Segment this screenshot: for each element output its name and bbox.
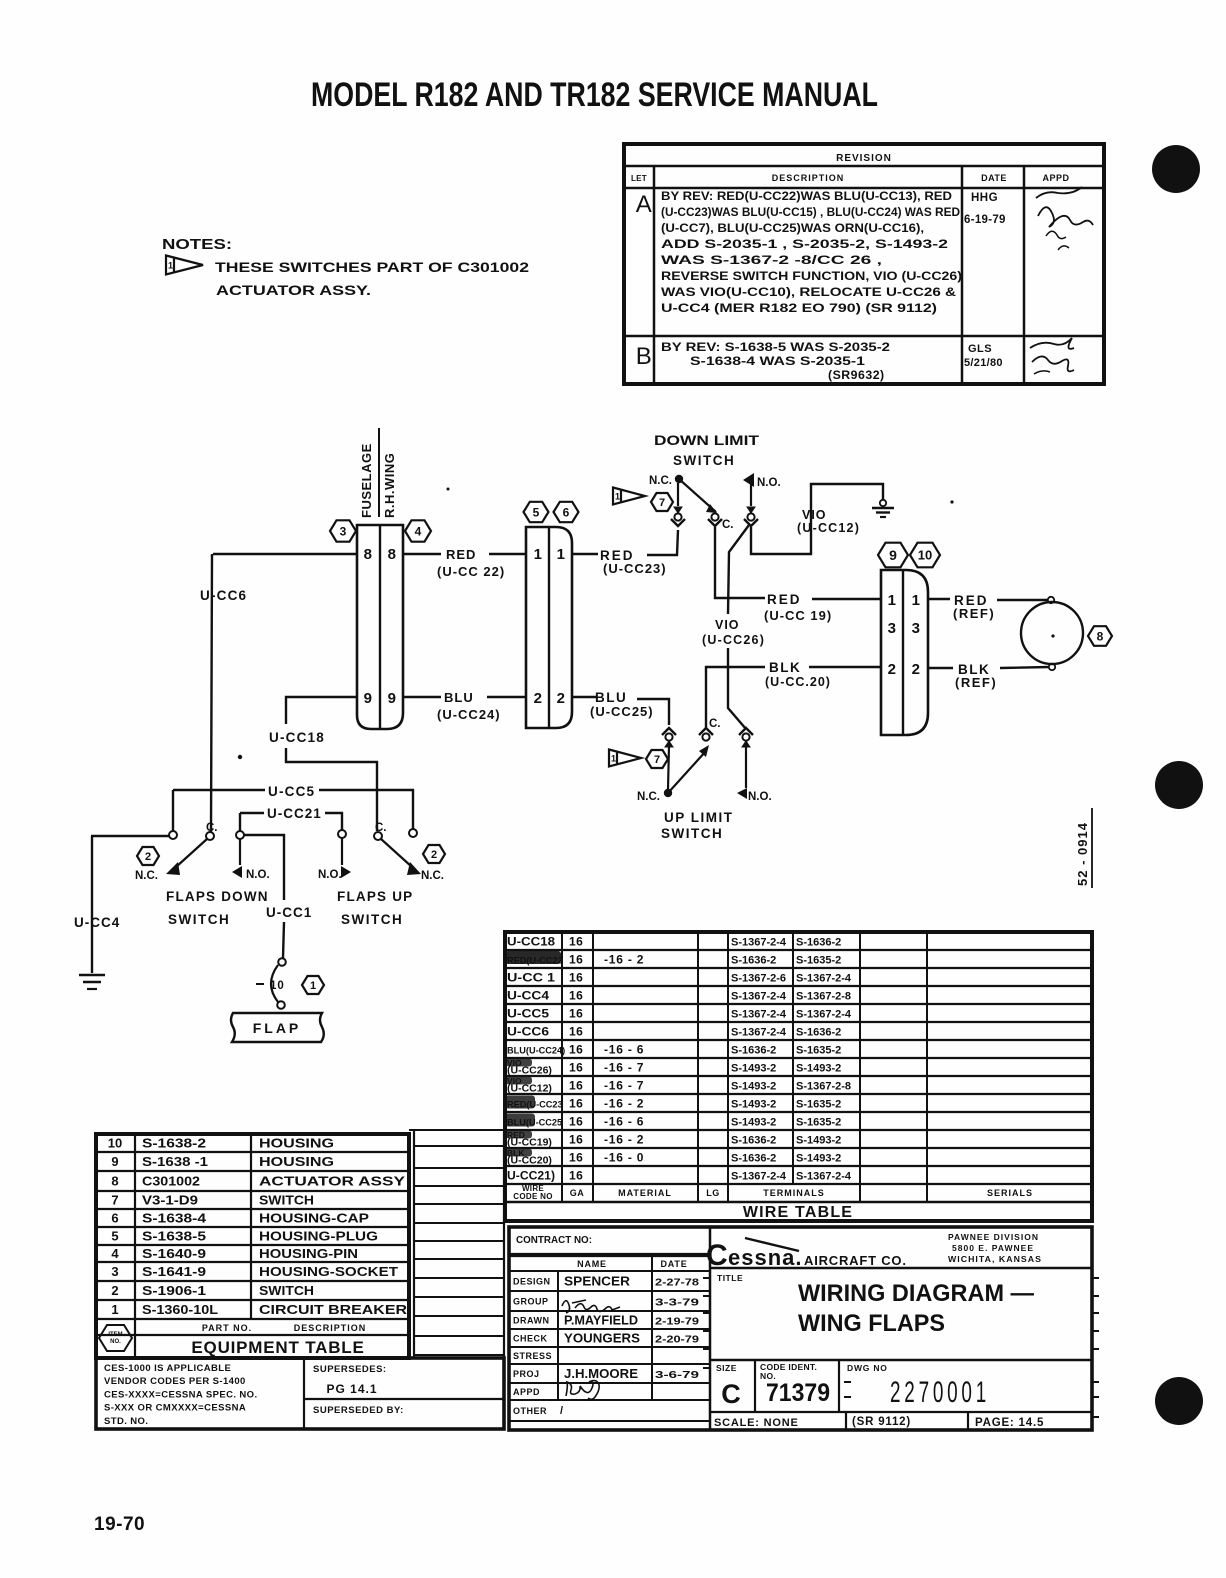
svg-text:SUPERSEDES:: SUPERSEDES: — [313, 1364, 387, 1375]
svg-text:AIRCRAFT CO.: AIRCRAFT CO. — [804, 1253, 907, 1268]
svg-text:16: 16 — [569, 1043, 583, 1057]
svg-text:3-3-79: 3-3-79 — [655, 1297, 699, 1309]
svg-text:SWITCH: SWITCH — [673, 453, 735, 468]
svg-text:9: 9 — [388, 690, 397, 707]
svg-text:SWITCH: SWITCH — [661, 826, 723, 841]
svg-text:U-CC21: U-CC21 — [267, 806, 322, 821]
svg-text:9: 9 — [889, 547, 897, 563]
svg-text:1: 1 — [557, 546, 566, 563]
svg-text:ADD S-2035-1 , S-2035-2, S-149: ADD S-2035-1 , S-2035-2, S-1493-2 — [661, 237, 948, 251]
svg-text:C.: C. — [206, 822, 218, 834]
svg-text:S-1367-2-6: S-1367-2-6 — [731, 973, 786, 985]
svg-text:C.: C. — [375, 822, 387, 834]
svg-text:WAS S-1367-2 -8/CC 26 ,: WAS S-1367-2 -8/CC 26 , — [661, 253, 882, 267]
svg-text:DWG NO: DWG NO — [847, 1363, 888, 1373]
svg-text:THESE SWITCHES PART OF C301002: THESE SWITCHES PART OF C301002 — [215, 259, 529, 275]
svg-text:U-CC21): U-CC21) — [507, 1169, 555, 1183]
svg-text:1: 1 — [534, 546, 543, 563]
svg-text:S-1635-2: S-1635-2 — [796, 1099, 841, 1111]
svg-text:DESIGN: DESIGN — [513, 1277, 551, 1287]
svg-text:-16 - 0: -16 - 0 — [604, 1151, 644, 1165]
svg-text:S-1906-1: S-1906-1 — [142, 1283, 206, 1298]
svg-text:(U-CC23)WAS BLU(U-CC15) , BLU(: (U-CC23)WAS BLU(U-CC15) , BLU(U-CC24) WA… — [661, 205, 960, 219]
svg-text:6-19-79: 6-19-79 — [964, 214, 1006, 226]
svg-text:S-1638-4 WAS S-2035-1: S-1638-4 WAS S-2035-1 — [690, 354, 865, 368]
svg-text:-16 - 2: -16 - 2 — [604, 1097, 644, 1111]
svg-text:2270001: 2270001 — [890, 1376, 990, 1409]
svg-text:S-1367-2-4: S-1367-2-4 — [796, 1009, 852, 1021]
svg-text:PAGE: 14.5: PAGE: 14.5 — [975, 1417, 1044, 1429]
svg-text:LET: LET — [631, 174, 647, 183]
svg-text:CHECK: CHECK — [513, 1334, 548, 1344]
svg-text:8: 8 — [1097, 629, 1104, 643]
svg-text:SIZE: SIZE — [716, 1363, 737, 1373]
svg-text:GROUP: GROUP — [513, 1297, 549, 1307]
svg-text:3: 3 — [111, 1264, 118, 1279]
svg-text:N.C.: N.C. — [135, 870, 158, 882]
svg-text:APPD: APPD — [513, 1387, 540, 1397]
svg-text:2-19-79: 2-19-79 — [655, 1316, 699, 1328]
svg-text:HHG: HHG — [971, 192, 998, 204]
svg-text:SWITCH: SWITCH — [168, 912, 230, 927]
svg-text:NAME: NAME — [577, 1259, 607, 1269]
svg-text:N.C.: N.C. — [637, 791, 660, 803]
svg-text:APPD: APPD — [1042, 173, 1069, 183]
svg-text:UP LIMIT: UP LIMIT — [664, 810, 734, 825]
svg-text:CODE NO: CODE NO — [513, 1192, 552, 1201]
svg-text:2: 2 — [557, 690, 566, 707]
svg-text:WIRE TABLE: WIRE TABLE — [743, 1204, 853, 1221]
svg-text:GA: GA — [570, 1188, 585, 1198]
svg-text:HOUSING-SOCKET: HOUSING-SOCKET — [259, 1264, 398, 1279]
svg-text:U-CC18: U-CC18 — [507, 935, 555, 949]
svg-text:S-1636-2: S-1636-2 — [796, 1027, 841, 1039]
svg-text:SCALE: NONE: SCALE: NONE — [714, 1417, 799, 1429]
svg-text:CIRCUIT BREAKER: CIRCUIT BREAKER — [259, 1302, 408, 1317]
svg-text:BY REV: S-1638-5 WAS S-2035-2: BY REV: S-1638-5 WAS S-2035-2 — [661, 340, 890, 354]
svg-text:DATE: DATE — [660, 1259, 687, 1269]
svg-text:SUPERSEDED BY:: SUPERSEDED BY: — [313, 1405, 404, 1416]
svg-text:S-1493-2: S-1493-2 — [796, 1063, 841, 1075]
svg-text:EQUIPMENT TABLE: EQUIPMENT TABLE — [191, 1338, 364, 1357]
svg-text:U-CC4: U-CC4 — [74, 915, 120, 930]
svg-text:FUSELAGE: FUSELAGE — [359, 443, 374, 518]
svg-text:GLS: GLS — [968, 343, 992, 355]
svg-text:RED: RED — [446, 547, 476, 562]
svg-text:DATE: DATE — [981, 173, 1007, 183]
svg-text:52 - 0914: 52 - 0914 — [1075, 822, 1090, 886]
svg-text:N.O.: N.O. — [757, 477, 781, 489]
svg-text:7: 7 — [659, 497, 665, 509]
svg-text:7: 7 — [654, 754, 660, 766]
svg-text:NO.: NO. — [110, 1339, 121, 1345]
svg-text:S-1367-2-4: S-1367-2-4 — [731, 991, 787, 1003]
svg-text:2-27-78: 2-27-78 — [655, 1277, 699, 1289]
svg-text:16: 16 — [569, 1025, 583, 1039]
svg-text:MODEL R182 AND TR182 SERVICE M: MODEL R182 AND TR182 SERVICE MANUAL — [311, 76, 878, 114]
svg-text:16: 16 — [569, 1133, 583, 1147]
svg-text:C: C — [721, 1379, 741, 1409]
svg-text:STD. NO.: STD. NO. — [104, 1416, 148, 1427]
svg-text:ITEM: ITEM — [108, 1332, 122, 1338]
svg-text:DESCRIPTION: DESCRIPTION — [772, 173, 845, 183]
svg-text:5: 5 — [111, 1229, 118, 1244]
svg-text:5/21/80: 5/21/80 — [964, 357, 1003, 369]
svg-text:A: A — [636, 191, 653, 218]
svg-text:S-1367-2-8: S-1367-2-8 — [796, 1081, 851, 1093]
svg-text:16: 16 — [569, 1007, 583, 1021]
svg-text:S-1640-9: S-1640-9 — [142, 1246, 206, 1261]
svg-text:10: 10 — [270, 980, 285, 992]
svg-text:1: 1 — [615, 492, 620, 502]
svg-text:TITLE: TITLE — [717, 1273, 743, 1283]
svg-text:WIRING DIAGRAM —: WIRING DIAGRAM — — [798, 1280, 1034, 1307]
svg-text:N.O.: N.O. — [748, 791, 772, 803]
svg-text:(SR9632): (SR9632) — [828, 368, 885, 382]
svg-text:U-CC 1: U-CC 1 — [507, 971, 555, 985]
svg-text:16: 16 — [569, 1151, 583, 1165]
svg-text:19-70: 19-70 — [94, 1514, 145, 1535]
svg-text:S-1367-2-8: S-1367-2-8 — [796, 991, 851, 1003]
svg-text:(SR 9112): (SR 9112) — [852, 1416, 911, 1428]
svg-text:S-1638 -1: S-1638 -1 — [142, 1154, 208, 1169]
svg-text:S-1367-2-4: S-1367-2-4 — [796, 973, 852, 985]
svg-text:V3-1-D9: V3-1-D9 — [142, 1193, 198, 1208]
svg-text:BLK: BLK — [769, 660, 801, 675]
svg-text:SWITCH: SWITCH — [259, 1193, 314, 1208]
svg-text:71379: 71379 — [766, 1379, 830, 1407]
svg-text:-16 - 2: -16 - 2 — [604, 1133, 644, 1147]
svg-text:U-CC5: U-CC5 — [507, 1007, 549, 1021]
svg-text:8: 8 — [364, 546, 373, 563]
svg-text:10: 10 — [918, 548, 932, 563]
svg-text:2-20-79: 2-20-79 — [655, 1334, 699, 1346]
svg-text:9: 9 — [364, 690, 373, 707]
svg-text:8: 8 — [111, 1174, 118, 1189]
svg-text:R.H.WING: R.H.WING — [382, 453, 397, 518]
svg-text:S-1638-5: S-1638-5 — [142, 1229, 206, 1244]
svg-text:BLU(U-CC24): BLU(U-CC24) — [507, 1046, 565, 1056]
svg-text:2: 2 — [888, 661, 897, 678]
svg-text:1: 1 — [310, 980, 316, 992]
svg-text:S-1636-2: S-1636-2 — [731, 1153, 776, 1165]
svg-text:16: 16 — [569, 989, 583, 1003]
svg-text:CES-1000 IS APPLICABLE: CES-1000 IS APPLICABLE — [104, 1363, 231, 1374]
svg-text:ACTUATOR ASSY.: ACTUATOR ASSY. — [216, 282, 371, 298]
svg-text:(U-CC23): (U-CC23) — [603, 561, 667, 576]
svg-text:2: 2 — [912, 661, 921, 678]
svg-text:TERMINALS: TERMINALS — [763, 1188, 825, 1198]
svg-text:FLAP: FLAP — [253, 1020, 302, 1036]
svg-text:2: 2 — [431, 849, 437, 861]
svg-text:ACTUATOR ASSY: ACTUATOR ASSY — [259, 1174, 405, 1189]
svg-text:U-CC18: U-CC18 — [269, 730, 325, 745]
svg-text:3-6-79: 3-6-79 — [655, 1369, 699, 1381]
svg-text:FLAPS DOWN: FLAPS DOWN — [166, 889, 269, 904]
svg-text:-16 - 7: -16 - 7 — [604, 1079, 644, 1093]
svg-text:S-1636-2: S-1636-2 — [731, 1135, 776, 1147]
svg-text:7: 7 — [111, 1193, 118, 1208]
svg-text:1: 1 — [912, 592, 921, 609]
svg-text:3: 3 — [340, 524, 347, 538]
svg-text:YOUNGERS: YOUNGERS — [564, 1332, 640, 1346]
svg-text:S-1635-2: S-1635-2 — [796, 1045, 841, 1057]
svg-text:U-CC1: U-CC1 — [266, 905, 312, 920]
svg-text:(U-CC 22): (U-CC 22) — [437, 564, 505, 579]
svg-text:16: 16 — [569, 1115, 583, 1129]
svg-text:1: 1 — [168, 261, 173, 271]
svg-text:2: 2 — [111, 1283, 118, 1298]
svg-text:S-1638-2: S-1638-2 — [142, 1136, 206, 1151]
svg-text:-16 - 2: -16 - 2 — [604, 953, 644, 967]
svg-text:2: 2 — [145, 851, 151, 863]
svg-text:LG: LG — [706, 1188, 720, 1198]
svg-text:SPENCER: SPENCER — [564, 1275, 630, 1289]
svg-text:S-1360-10L: S-1360-10L — [142, 1302, 218, 1317]
svg-text:S-1367-2-4: S-1367-2-4 — [731, 1009, 787, 1021]
svg-text:S-1493-2: S-1493-2 — [796, 1153, 841, 1165]
svg-text:S-1493-2: S-1493-2 — [796, 1135, 841, 1147]
svg-text:16: 16 — [569, 953, 583, 967]
svg-text:16: 16 — [569, 1097, 583, 1111]
svg-text:S-1493-2: S-1493-2 — [731, 1081, 776, 1093]
svg-text:CONTRACT NO:: CONTRACT NO: — [516, 1234, 592, 1246]
svg-text:VENDOR CODES PER S-1400: VENDOR CODES PER S-1400 — [104, 1376, 246, 1387]
svg-text:U-CC4: U-CC4 — [507, 989, 549, 1003]
svg-text:BLU: BLU — [444, 690, 474, 705]
svg-text:DRAWN: DRAWN — [513, 1316, 550, 1326]
svg-text:WAS VIO(U-CC10), RELOCATE U-CC: WAS VIO(U-CC10), RELOCATE U-CC26 & — [661, 285, 956, 299]
svg-text:PAWNEE DIVISION: PAWNEE DIVISION — [948, 1232, 1039, 1242]
svg-text:HOUSING-PLUG: HOUSING-PLUG — [259, 1229, 378, 1244]
svg-text:(REF): (REF) — [955, 675, 997, 690]
svg-text:NOTES:: NOTES: — [162, 237, 232, 253]
svg-text:6: 6 — [111, 1211, 118, 1226]
svg-text:N.C.: N.C. — [421, 870, 444, 882]
svg-text:(U-CC26): (U-CC26) — [702, 633, 765, 647]
svg-text:6: 6 — [563, 505, 570, 519]
svg-text:OTHER: OTHER — [513, 1406, 547, 1416]
svg-text:16: 16 — [569, 1169, 583, 1183]
svg-text:S-1493-2: S-1493-2 — [731, 1099, 776, 1111]
svg-text:N.O.: N.O. — [246, 869, 270, 881]
svg-text:RED: RED — [767, 592, 802, 607]
svg-text:N.C.: N.C. — [649, 475, 672, 487]
svg-text:16: 16 — [569, 1061, 583, 1075]
svg-text:1: 1 — [611, 754, 616, 764]
svg-text:(U-CC25): (U-CC25) — [590, 704, 654, 719]
svg-text:PROJ: PROJ — [513, 1369, 540, 1379]
svg-text:16: 16 — [569, 1079, 583, 1093]
svg-text:S-1638-4: S-1638-4 — [142, 1211, 207, 1226]
svg-text:C.: C. — [709, 718, 721, 730]
svg-text:5: 5 — [533, 505, 540, 519]
svg-text:/: / — [560, 1405, 563, 1417]
svg-text:U-CC6: U-CC6 — [507, 1025, 549, 1039]
svg-text:HOUSING-PIN: HOUSING-PIN — [259, 1246, 358, 1261]
svg-text:FLAPS UP: FLAPS UP — [337, 889, 413, 904]
svg-text:J.H.MOORE: J.H.MOORE — [564, 1367, 638, 1381]
svg-text:SERIALS: SERIALS — [987, 1188, 1033, 1198]
svg-text:(U-CC 19): (U-CC 19) — [764, 608, 832, 623]
svg-text:3: 3 — [912, 620, 921, 637]
svg-text:BLU: BLU — [595, 690, 627, 705]
svg-text:WICHITA, KANSAS: WICHITA, KANSAS — [948, 1254, 1042, 1264]
svg-text:-16 - 7: -16 - 7 — [604, 1061, 644, 1075]
svg-text:S-1493-2: S-1493-2 — [731, 1063, 776, 1075]
svg-text:S-1636-2: S-1636-2 — [796, 937, 841, 949]
svg-text:VIO: VIO — [715, 618, 740, 632]
svg-text:9: 9 — [111, 1154, 118, 1169]
svg-text:VIO: VIO — [802, 508, 827, 522]
svg-text:S-1635-2: S-1635-2 — [796, 955, 841, 967]
svg-text:8: 8 — [388, 546, 397, 563]
svg-text:P.MAYFIELD: P.MAYFIELD — [564, 1314, 638, 1328]
svg-text:S-1636-2: S-1636-2 — [731, 1045, 776, 1057]
svg-text:REVERSE SWITCH FUNCTION, VIO (: REVERSE SWITCH FUNCTION, VIO (U-CC26) — [661, 269, 962, 283]
svg-text:1: 1 — [888, 592, 897, 609]
svg-text:HOUSING: HOUSING — [259, 1136, 334, 1151]
svg-text:U-CC6: U-CC6 — [200, 588, 247, 603]
svg-text:(U-CC12): (U-CC12) — [797, 521, 860, 535]
svg-text:STRESS: STRESS — [513, 1351, 552, 1361]
svg-text:S-1367-2-4: S-1367-2-4 — [731, 1171, 787, 1183]
svg-text:WING FLAPS: WING FLAPS — [798, 1310, 945, 1337]
svg-text:1: 1 — [111, 1302, 118, 1317]
svg-text:2: 2 — [534, 690, 543, 707]
svg-text:(REF): (REF) — [953, 606, 995, 621]
svg-text:5800 E. PAWNEE: 5800 E. PAWNEE — [952, 1243, 1034, 1253]
svg-text:SWITCH: SWITCH — [259, 1283, 314, 1298]
svg-text:PART NO.: PART NO. — [202, 1323, 252, 1333]
svg-text:S-1367-2-4: S-1367-2-4 — [731, 1027, 787, 1039]
svg-text:MATERIAL: MATERIAL — [618, 1188, 672, 1198]
svg-text:3: 3 — [888, 620, 897, 637]
svg-text:U-CC4 (MER R182 EO 790) (SR: U-CC4 (MER R182 EO 790) (SR 9112) — [661, 301, 937, 315]
svg-text:16: 16 — [569, 935, 583, 949]
svg-text:PG 14.1: PG 14.1 — [326, 1382, 377, 1396]
svg-text:REVISION: REVISION — [836, 153, 892, 164]
svg-text:DOWN LIMIT: DOWN LIMIT — [654, 433, 760, 448]
svg-text:(U-CC24): (U-CC24) — [437, 707, 501, 722]
svg-text:10: 10 — [108, 1136, 122, 1151]
svg-text:4: 4 — [415, 524, 422, 538]
svg-text:SWITCH: SWITCH — [341, 912, 403, 927]
svg-text:S-1367-2-4: S-1367-2-4 — [796, 1171, 852, 1183]
svg-text:HOUSING: HOUSING — [259, 1154, 334, 1169]
svg-text:BY REV: RED(U-CC22)WAS BLU(U-C: BY REV: RED(U-CC22)WAS BLU(U-CC13), RED — [661, 189, 952, 203]
svg-text:-16 - 6: -16 - 6 — [604, 1115, 644, 1129]
svg-text:C.: C. — [722, 519, 734, 531]
svg-text:S-1493-2: S-1493-2 — [731, 1117, 776, 1129]
svg-text:C301002: C301002 — [142, 1174, 200, 1189]
svg-text:-16 - 6: -16 - 6 — [604, 1043, 644, 1057]
svg-text:S-XXX OR CMXXXX=CESSNA: S-XXX OR CMXXXX=CESSNA — [104, 1403, 246, 1414]
svg-text:(U-CC7), BLU(U-CC25)WAS ORN(U-: (U-CC7), BLU(U-CC25)WAS ORN(U-CC16), — [661, 221, 924, 235]
svg-text:S-1367-2-4: S-1367-2-4 — [731, 937, 787, 949]
svg-text:U-CC5: U-CC5 — [268, 784, 315, 799]
svg-text:DESCRIPTION: DESCRIPTION — [294, 1323, 367, 1333]
svg-text:S-1641-9: S-1641-9 — [142, 1264, 206, 1279]
svg-text:N.O.: N.O. — [318, 869, 342, 881]
svg-text:B: B — [636, 343, 653, 370]
svg-text:4: 4 — [111, 1246, 119, 1261]
svg-text:CES-XXXX=CESSNA SPEC. NO.: CES-XXXX=CESSNA SPEC. NO. — [104, 1389, 258, 1400]
svg-text:(U-CC.20): (U-CC.20) — [765, 675, 831, 689]
svg-text:S-1635-2: S-1635-2 — [796, 1117, 841, 1129]
svg-text:HOUSING-CAP: HOUSING-CAP — [259, 1211, 369, 1226]
svg-text:16: 16 — [569, 971, 583, 985]
svg-text:S-1636-2: S-1636-2 — [731, 955, 776, 967]
